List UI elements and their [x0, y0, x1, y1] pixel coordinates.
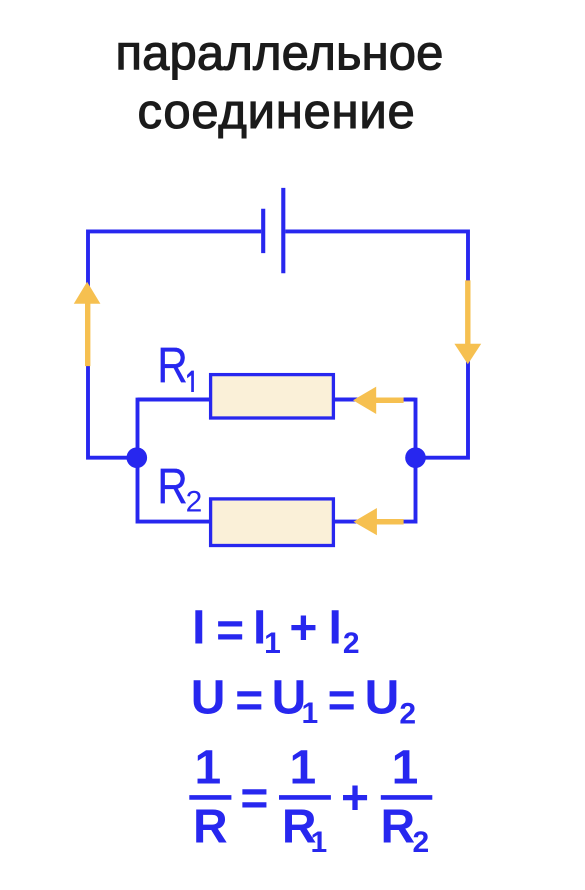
- svg-text:R: R: [193, 801, 228, 854]
- svg-text:I: I: [192, 602, 205, 655]
- formula 1/R = 1/R1 + 1/R2 : fraction 1/R: [189, 742, 231, 854]
- svg-text:I: I: [329, 602, 342, 655]
- wire R1 branch right: [333, 398, 416, 402]
- node right junction dot: [405, 447, 426, 468]
- fraction 1/R2: [380, 742, 432, 859]
- label R2: [157, 458, 202, 519]
- current arrow I1 (R1 branch, pointing left): [353, 387, 404, 414]
- svg-text:U: U: [191, 672, 226, 725]
- battery B1 short plate (negative): [261, 209, 265, 253]
- svg-text:=: =: [240, 772, 268, 825]
- wire R1 branch left: [138, 398, 213, 402]
- wire left loop: battery to left node: [88, 231, 261, 457]
- resistor R2 body: [211, 499, 334, 546]
- svg-text:2: 2: [343, 627, 360, 660]
- svg-text:=: =: [235, 675, 263, 728]
- wire right branch vertical: [414, 398, 418, 524]
- current arrow I2 (R2 branch, pointing left): [354, 508, 404, 535]
- svg-text:параллельное: параллельное: [116, 26, 444, 80]
- svg-text:=: =: [216, 605, 244, 658]
- svg-text:R: R: [380, 801, 415, 854]
- svg-text:R: R: [157, 458, 187, 514]
- svg-text:1: 1: [194, 742, 221, 795]
- svg-text:+: +: [341, 772, 369, 825]
- wire R2 branch right: [333, 520, 416, 524]
- formula U = U1 = U2: [191, 672, 416, 731]
- svg-text:U: U: [365, 672, 400, 725]
- fraction 1/R1: [279, 742, 331, 859]
- battery B1 long plate (positive): [281, 188, 285, 273]
- current arrow I up (left wire): [74, 282, 101, 366]
- label R1: [157, 337, 193, 393]
- wire right loop: battery to right node: [285, 231, 468, 457]
- svg-text:2: 2: [186, 486, 203, 519]
- svg-text:=: =: [328, 675, 356, 728]
- svg-text:1: 1: [392, 742, 419, 795]
- svg-text:2: 2: [412, 826, 429, 859]
- formula I = I1 + I2: [192, 602, 359, 660]
- current arrow I down (right wire): [454, 280, 481, 364]
- svg-text:1: 1: [310, 826, 327, 859]
- wire left branch vertical: [136, 398, 140, 524]
- svg-text:+: +: [289, 602, 317, 655]
- svg-text:R: R: [157, 337, 187, 393]
- svg-text:1: 1: [290, 742, 317, 795]
- svg-text:1: 1: [301, 697, 318, 730]
- svg-text:1: 1: [264, 627, 281, 660]
- node left junction dot: [127, 447, 148, 468]
- svg-text:соединение: соединение: [138, 85, 416, 139]
- wire R2 branch left: [138, 520, 213, 524]
- resistor R1 body: [211, 375, 334, 418]
- svg-text:2: 2: [399, 698, 416, 731]
